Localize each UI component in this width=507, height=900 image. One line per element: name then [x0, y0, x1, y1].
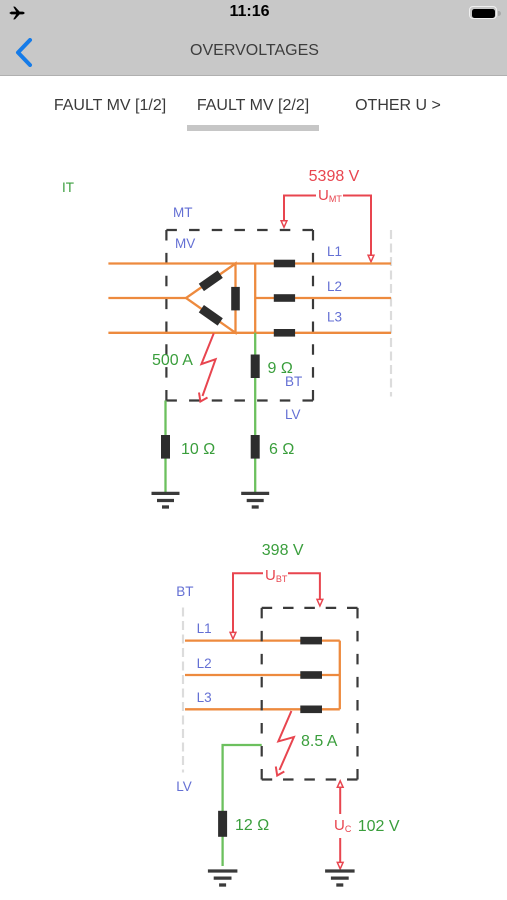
wire phase L2 secondary [255, 297, 391, 299]
tab OTHER U [355, 97, 441, 115]
transformer T1 secondary winding L2 [274, 294, 295, 302]
transformer enclosure (dashed box) [166, 230, 313, 401]
svg-text:L1: L1 [197, 621, 212, 636]
svg-text:10 Ω: 10 Ω [181, 441, 215, 458]
ground (PE earth) [208, 871, 238, 885]
svg-text:UBT: UBT [265, 567, 288, 584]
svg-text:LV: LV [285, 407, 301, 422]
svg-text:IT: IT [62, 180, 74, 195]
svg-text:UMT: UMT [318, 187, 342, 204]
svg-text:398 V: 398 V [262, 542, 304, 559]
clock [0, 3, 503, 21]
star bus wire [339, 641, 341, 710]
delta winding triangle wires [186, 264, 236, 333]
svg-text:UC: UC [334, 817, 352, 834]
ground (MV earth) [152, 493, 180, 507]
screen title [1, 42, 507, 60]
airplane-mode icon [8, 5, 25, 21]
transformer T1 primary winding c [231, 287, 240, 311]
resistor 10 ohm [161, 435, 170, 459]
svg-text:8.5 A: 8.5 A [301, 733, 338, 750]
svg-text:BT: BT [285, 374, 302, 389]
load winding L1 [300, 637, 322, 645]
ground (LV neutral) [241, 493, 269, 507]
MV earth wire [164, 401, 166, 493]
svg-text:L1: L1 [327, 244, 342, 259]
wire phase L3 [108, 332, 391, 334]
svg-text:12 Ω: 12 Ω [235, 817, 269, 834]
transformer T1 primary winding b [199, 305, 223, 326]
voltage measure bracket UMT [281, 196, 374, 262]
svg-text:102 V: 102 V [358, 818, 400, 835]
transformer T1 secondary winding L1 [274, 260, 295, 268]
tab FAULT MV [1/2] [54, 97, 166, 115]
svg-text:L2: L2 [197, 656, 212, 671]
svg-text:BT: BT [176, 584, 193, 599]
back chevron [14, 38, 34, 67]
battery icon [469, 6, 497, 19]
secondary star bus wire [254, 264, 256, 333]
ground (remote earth) [325, 871, 355, 885]
voltage measure bracket UBT [230, 573, 323, 639]
svg-text:LV: LV [176, 779, 192, 794]
transformer T1 primary winding a [199, 271, 223, 292]
svg-text:L3: L3 [197, 690, 212, 705]
appliance enclosure (dashed box) [262, 608, 358, 780]
svg-text:5398 V: 5398 V [309, 168, 360, 185]
status/nav gray bar [0, 0, 507, 76]
resistor 12 ohm [218, 811, 227, 837]
svg-text:6 Ω: 6 Ω [269, 441, 294, 458]
load winding L3 [300, 706, 322, 714]
load winding L2 [300, 671, 322, 679]
fault current lightning arrow [199, 333, 216, 401]
svg-text:L2: L2 [327, 279, 342, 294]
wire phase L3 [185, 708, 340, 710]
tab FAULT MV [2/2] (selected) [197, 97, 309, 115]
wire phase L1 [185, 639, 340, 641]
transformer T1 secondary winding L3 [274, 329, 295, 337]
wire phase L2 [185, 674, 340, 676]
wire phase L1 [108, 262, 391, 264]
svg-text:500 A: 500 A [152, 352, 193, 369]
PE earth wire [223, 745, 262, 866]
svg-text:MV: MV [175, 236, 195, 251]
network boundary (light dashed) [390, 230, 392, 397]
svg-text:MT: MT [173, 205, 193, 220]
fault lightning arrow 8.5 A [276, 711, 294, 776]
touch voltage arrow Uc [337, 781, 343, 869]
resistor 9 ohm [251, 355, 260, 379]
wire phase L2 primary [108, 297, 186, 299]
selected tab underline [187, 125, 319, 131]
neutral earthing wire (star point) [254, 333, 256, 492]
LV boundary (light dashed) [182, 608, 184, 773]
resistor 6 ohm [251, 435, 260, 459]
svg-text:L3: L3 [327, 310, 342, 325]
